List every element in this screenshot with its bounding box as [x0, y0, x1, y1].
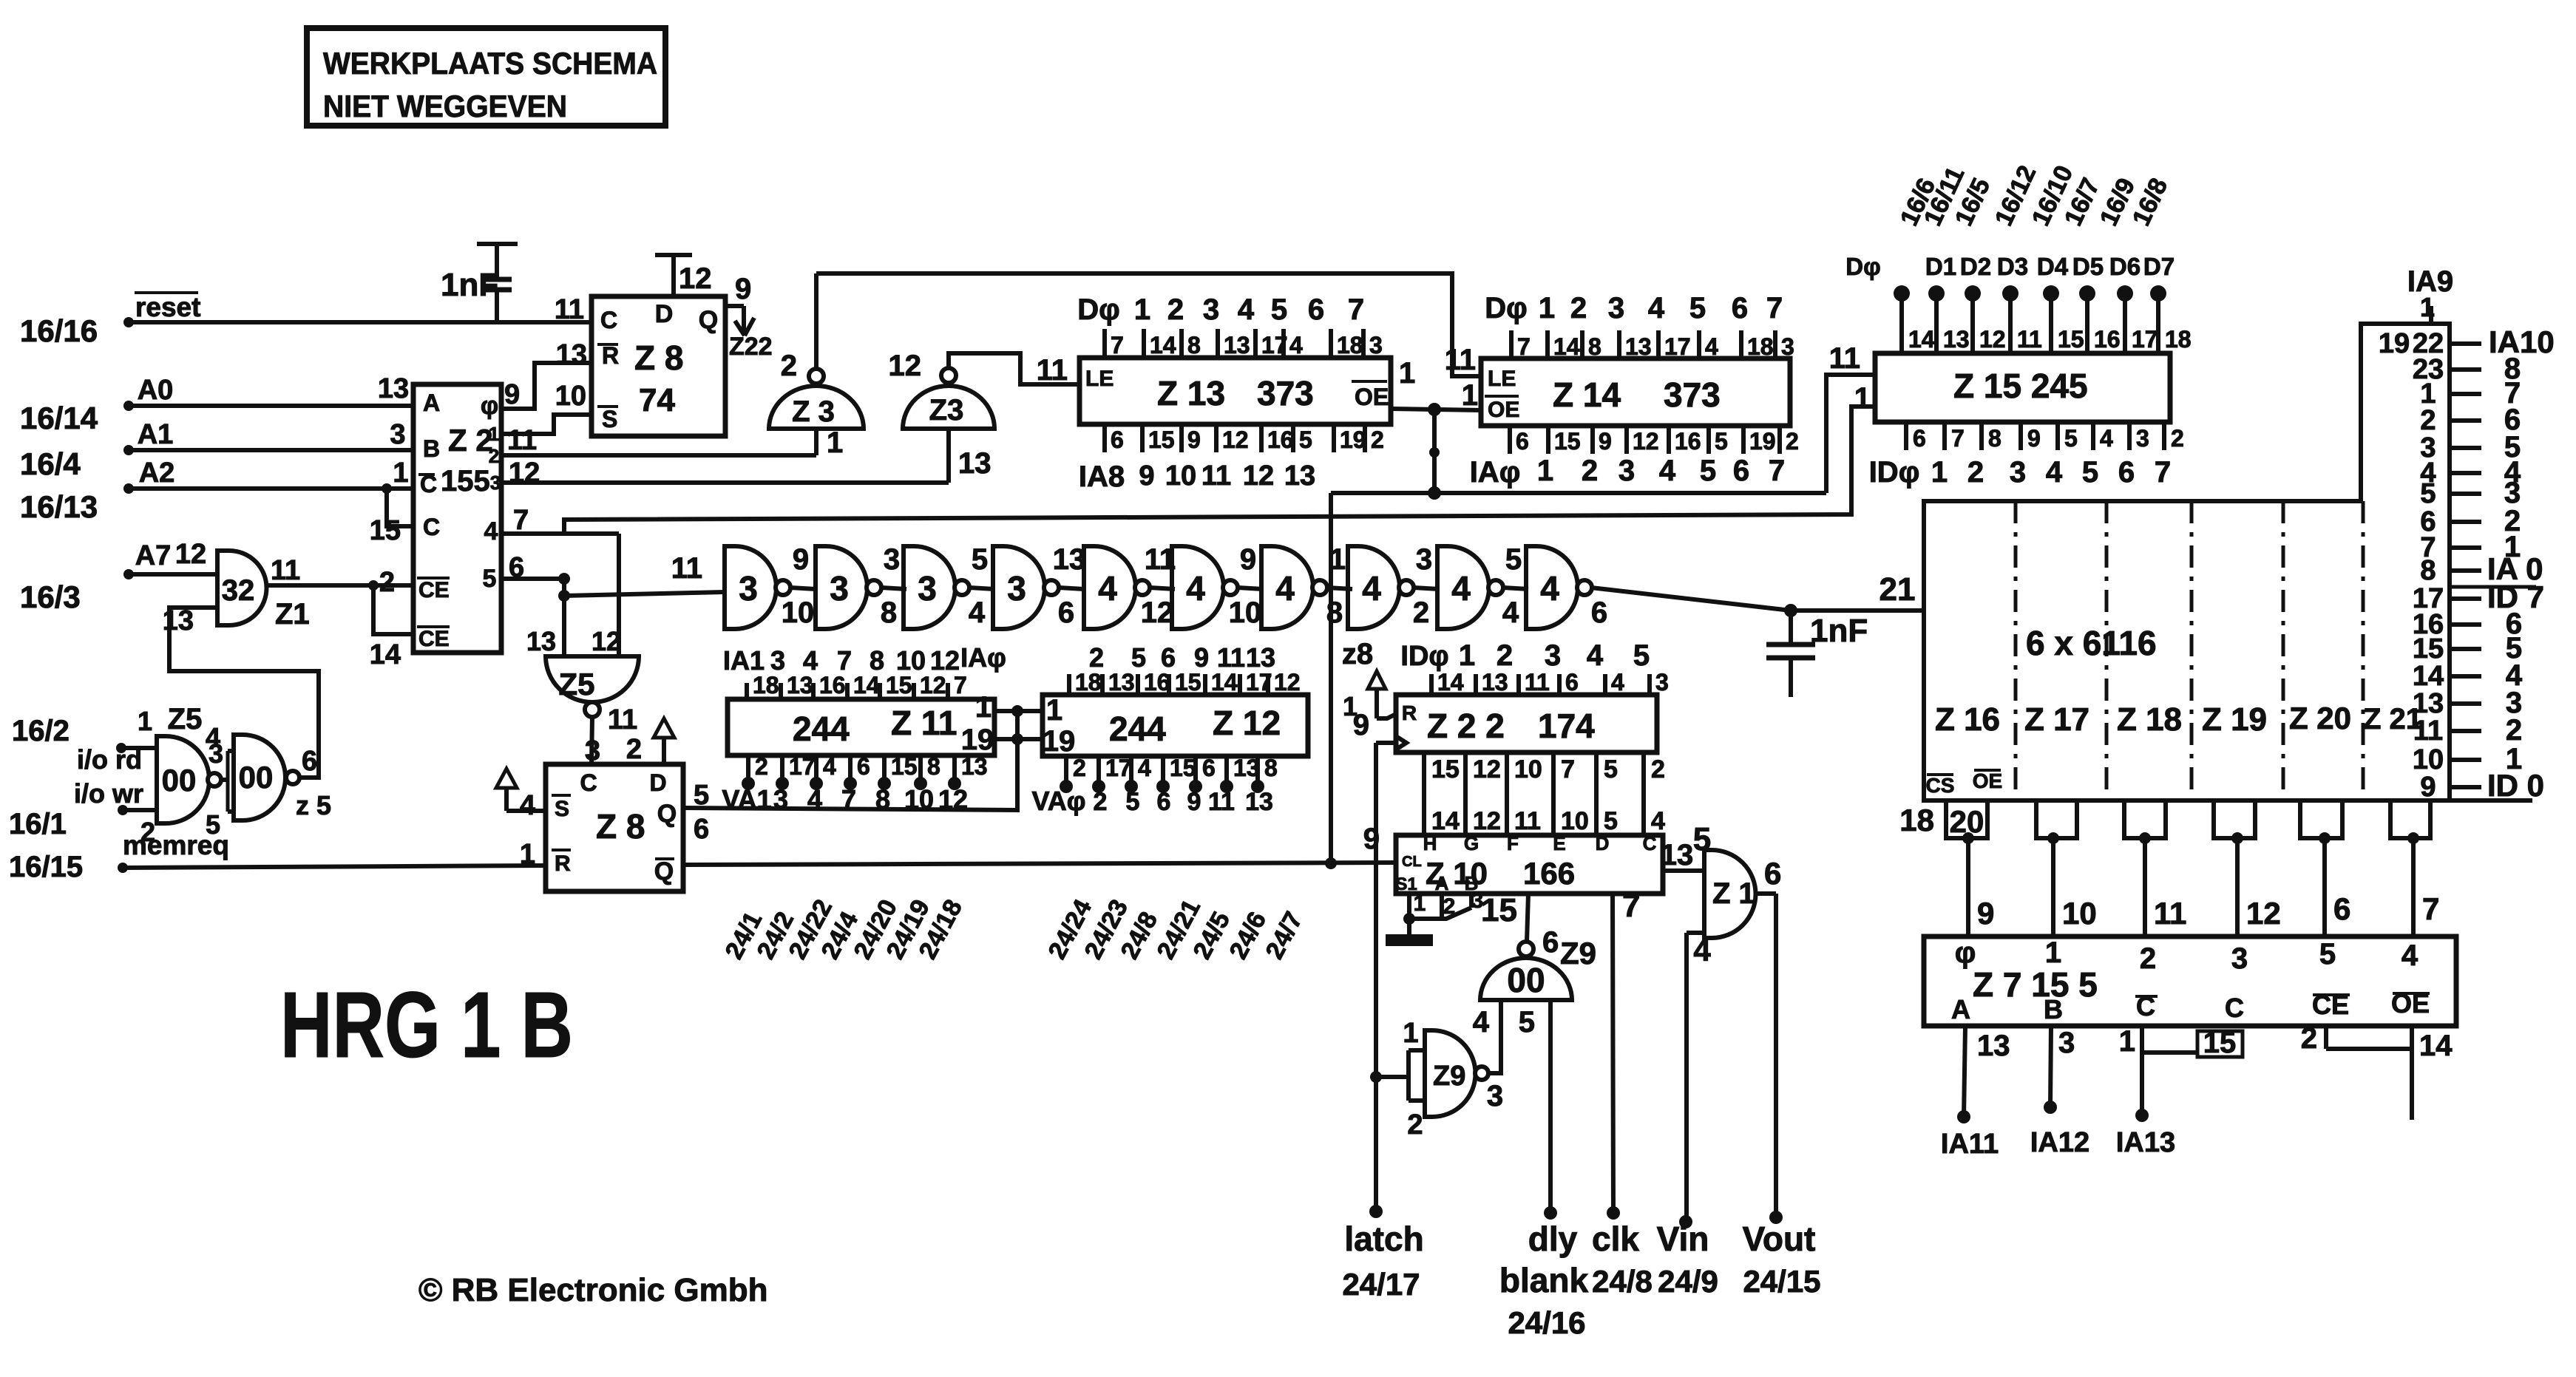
svg-text:5: 5	[1271, 293, 1287, 326]
svg-text:7: 7	[1622, 888, 1640, 924]
svg-text:10: 10	[2062, 896, 2097, 931]
svg-text:A7: A7	[135, 540, 172, 571]
svg-text:11: 11	[2154, 896, 2186, 931]
svg-text:7: 7	[841, 784, 856, 815]
svg-text:5: 5	[1519, 1006, 1535, 1038]
svg-text:4: 4	[1238, 293, 1255, 326]
svg-text:Z5: Z5	[168, 703, 203, 735]
svg-text:11: 11	[1201, 460, 1231, 492]
svg-text:4: 4	[1451, 569, 1471, 608]
svg-text:9: 9	[1194, 642, 1209, 673]
svg-text:2: 2	[2420, 405, 2436, 436]
inverter gate chain #4 (Z3)	[993, 546, 1059, 629]
net i/o rd input 16/2	[12, 706, 157, 775]
svg-text:5: 5	[1126, 788, 1140, 816]
svg-text:Z5: Z5	[558, 667, 594, 701]
svg-text:11: 11	[2413, 715, 2443, 747]
wire Z3 gate1 output to feedback line	[814, 273, 818, 369]
svg-text:4: 4	[1693, 933, 1711, 968]
net reset input 16/16	[20, 292, 592, 348]
svg-text:2: 2	[1413, 596, 1429, 629]
svg-text:B: B	[2044, 994, 2063, 1024]
Z13 bottom pins IA8-IA13	[1079, 424, 1384, 493]
svg-text:4: 4	[484, 517, 498, 545]
svg-text:18: 18	[2165, 326, 2192, 353]
svg-text:8: 8	[1264, 755, 1278, 781]
Z14 top data pins D0-D7	[1485, 292, 1794, 360]
wire Z10 pin7 to clk 24/8	[1607, 888, 1640, 1220]
svg-text:6: 6	[1516, 428, 1529, 455]
Z7 pin B 3 to IA12	[2030, 1026, 2089, 1158]
svg-text:14: 14	[1211, 669, 1238, 696]
svg-text:IDφ: IDφ	[1869, 456, 1920, 489]
svg-text:15: 15	[2203, 1027, 2237, 1059]
svg-text:Z 1: Z 1	[1712, 877, 1755, 910]
svg-text:373: 373	[1664, 375, 1721, 414]
svg-text:13: 13	[961, 753, 988, 780]
svg-text:Z 2: Z 2	[448, 423, 493, 458]
svg-text:4: 4	[1611, 669, 1624, 696]
svg-text:2: 2	[2171, 425, 2184, 452]
svg-text:5: 5	[1505, 543, 1522, 576]
svg-text:1: 1	[975, 691, 992, 724]
svg-text:5: 5	[2319, 938, 2336, 970]
ic Z10 74166 shift register	[1363, 823, 1663, 894]
svg-text:1: 1	[1046, 694, 1062, 727]
wire Z2 pin9 to Z8 R pin13	[501, 363, 592, 409]
svg-text:5: 5	[1299, 426, 1312, 453]
ic Z11 74244 buffer	[728, 691, 994, 756]
svg-text:6: 6	[1202, 755, 1216, 781]
or-gate Z1 7432 pins 12,13 output 11	[163, 551, 310, 636]
svg-text:OE: OE	[1488, 398, 1519, 422]
svg-text:OE: OE	[1973, 769, 2002, 792]
svg-text:12: 12	[938, 784, 968, 815]
svg-text:3: 3	[2010, 456, 2026, 489]
wire feedback top line to Z14 LE pin11	[816, 273, 1481, 376]
svg-text:clk: clk	[1592, 1220, 1639, 1258]
svg-text:Dφ: Dφ	[1485, 292, 1528, 324]
svg-text:8: 8	[1187, 332, 1201, 358]
svg-text:4: 4	[206, 722, 220, 752]
ic Z13 74373 latch	[1037, 354, 1416, 424]
Z15 bottom pins ID0-ID7	[1869, 422, 2184, 489]
svg-text:15: 15	[1481, 892, 1517, 928]
svg-text:00: 00	[239, 760, 274, 795]
svg-text:R: R	[1402, 701, 1417, 724]
ic Z7 74155 decoder	[1924, 936, 2456, 1026]
ic Z22 74174 hex flip-flop	[1396, 695, 1657, 752]
svg-text:1: 1	[1414, 891, 1426, 916]
svg-text:i/o wr: i/o wr	[74, 778, 143, 809]
Z15 top pins D0-D7 with terminals	[1845, 253, 2191, 353]
Z11 bottom pins VA1,3,4,7,8,10,12	[722, 753, 987, 815]
svg-text:4: 4	[823, 753, 836, 780]
svg-text:16/1: 16/1	[9, 808, 67, 840]
svg-text:10: 10	[555, 381, 586, 412]
svg-text:13: 13	[1245, 788, 1273, 816]
svg-text:10: 10	[896, 645, 926, 676]
svg-text:11: 11	[1525, 669, 1550, 696]
svg-text:13: 13	[1661, 839, 1694, 871]
wire Z9b output 3 to Z9a input 4	[1487, 1000, 1503, 1112]
svg-text:16: 16	[1144, 669, 1170, 696]
Z12 bottom pins VA0,2,5,6,9,11,13	[1031, 755, 1277, 816]
wire ram chip select pair to Z7 output 11	[2124, 800, 2186, 936]
wire Z1 output pin11 to Z2 CE pin2	[266, 580, 413, 634]
svg-text:Dφ: Dφ	[1077, 293, 1120, 326]
svg-text:R: R	[555, 851, 571, 876]
svg-text:1: 1	[489, 423, 499, 445]
logic-high arrow on Z8b S pin4	[496, 769, 546, 811]
svg-text:© RB Electronic Gmbh: © RB Electronic Gmbh	[418, 1272, 767, 1308]
svg-text:12: 12	[930, 645, 960, 676]
svg-text:4: 4	[1362, 569, 1381, 608]
svg-text:LE: LE	[1085, 367, 1114, 391]
svg-text:1: 1	[1462, 379, 1478, 412]
Z10 pins S1,A,B to ground	[1403, 888, 1483, 934]
svg-text:7: 7	[1111, 332, 1124, 358]
svg-text:14: 14	[853, 672, 880, 698]
port Vout 24/15	[1743, 1220, 1821, 1299]
ic Z15 74245 transceiver	[1829, 342, 2170, 422]
svg-text:15: 15	[1170, 755, 1196, 781]
svg-text:15: 15	[1554, 428, 1581, 455]
wire Z9a input5 to dly blank	[1544, 1000, 1557, 1220]
svg-text:3: 3	[739, 569, 758, 608]
svg-text:24/8: 24/8	[1592, 1264, 1653, 1299]
svg-text:Vout: Vout	[1743, 1220, 1816, 1258]
svg-text:24/16: 24/16	[1508, 1305, 1585, 1340]
svg-text:4: 4	[1275, 569, 1295, 608]
svg-text:12: 12	[889, 350, 922, 382]
svg-text:VA1: VA1	[722, 784, 771, 815]
svg-text:12: 12	[2246, 896, 2281, 931]
svg-text:11: 11	[1208, 788, 1235, 816]
nand Z5 gate A (i/o rd, i/o wr)	[157, 703, 223, 823]
connector labels 24/x group A (below Z11)	[720, 895, 969, 964]
svg-text:R: R	[602, 342, 619, 369]
svg-text:24/9: 24/9	[1658, 1264, 1718, 1299]
ground symbol	[1386, 934, 1433, 946]
svg-text:D6: D6	[2109, 253, 2141, 280]
svg-text:1: 1	[1931, 456, 1948, 489]
nand Z3 gate2 (output 12 up, input 13 down)	[889, 350, 995, 429]
logic-high arrow on Z8b D pin2	[626, 718, 674, 765]
svg-text:3: 3	[2058, 1027, 2075, 1059]
svg-text:CS: CS	[1926, 774, 1955, 797]
svg-text:5: 5	[206, 809, 220, 840]
svg-text:D: D	[655, 300, 674, 328]
svg-text:5: 5	[1131, 642, 1146, 673]
svg-text:E: E	[1553, 832, 1565, 854]
wire ram chip select pair to Z7 output 10	[2036, 800, 2097, 936]
wire Z2 pin10 to Z8 S pin10	[501, 415, 592, 434]
svg-text:A1: A1	[138, 419, 174, 450]
inverter gate chain #8 (Z4)	[1348, 546, 1414, 629]
svg-text:3: 3	[1416, 543, 1432, 576]
svg-text:11: 11	[608, 704, 637, 735]
svg-text:IA8: IA8	[1079, 460, 1125, 493]
svg-text:15: 15	[891, 753, 918, 780]
svg-text:7: 7	[1561, 755, 1575, 783]
svg-text:2: 2	[781, 350, 797, 382]
ic Z8 7474 flip-flop top half	[555, 255, 725, 436]
svg-text:11: 11	[555, 294, 584, 325]
svg-text:13: 13	[1482, 669, 1508, 696]
svg-text:13: 13	[378, 373, 409, 404]
svg-text:16/2: 16/2	[12, 715, 70, 747]
svg-text:CE: CE	[418, 578, 450, 602]
svg-text:1: 1	[1403, 1018, 1418, 1049]
wire junction line to Z15 pin11 and down to Z10	[1331, 375, 1875, 863]
svg-text:5: 5	[483, 565, 497, 593]
net A0 input 16/14	[20, 373, 413, 435]
svg-text:Q: Q	[654, 857, 674, 885]
svg-text:8: 8	[1588, 333, 1601, 360]
svg-text:2: 2	[755, 753, 768, 780]
svg-text:reset: reset	[135, 292, 200, 322]
svg-text:13: 13	[1053, 543, 1086, 576]
svg-text:13: 13	[1943, 326, 1970, 353]
svg-text:6: 6	[1732, 292, 1748, 324]
svg-text:15: 15	[1175, 669, 1201, 696]
svg-text:15: 15	[1148, 426, 1175, 453]
svg-text:11: 11	[2017, 326, 2042, 353]
svg-text:6: 6	[1913, 425, 1926, 452]
svg-text:1nF: 1nF	[1810, 613, 1868, 649]
svg-text:5: 5	[2082, 456, 2098, 489]
ic Z8 7474 flip-flop bottom half	[520, 764, 709, 891]
svg-text:9: 9	[1187, 426, 1201, 453]
svg-text:Z 14: Z 14	[1553, 375, 1621, 414]
svg-text:21: 21	[1880, 571, 1916, 608]
svg-text:Dφ: Dφ	[1845, 253, 1880, 280]
net IA9 into ram pin 1	[2407, 265, 2453, 324]
svg-text:12: 12	[1633, 428, 1659, 455]
svg-text:z8: z8	[1342, 638, 1373, 670]
net A1 input 16/4	[20, 419, 413, 481]
wire Z3 gate2 output to Z13 LE pin11	[949, 353, 1079, 384]
svg-text:z 5: z 5	[296, 790, 331, 820]
svg-text:17: 17	[1105, 755, 1132, 781]
svg-text:1: 1	[1134, 293, 1150, 326]
svg-text:16/3: 16/3	[20, 579, 81, 614]
and Z1 gate B (video out)	[1661, 839, 1756, 938]
svg-text:2: 2	[1073, 755, 1086, 781]
svg-text:3: 3	[1007, 569, 1026, 608]
svg-text:15: 15	[2413, 633, 2444, 664]
wire Vin up to Z1 gate pin4	[1679, 933, 1711, 1228]
svg-text:7: 7	[1769, 455, 1785, 487]
svg-text:4: 4	[1186, 569, 1205, 608]
ic Z12 74244 buffer	[1043, 694, 1308, 758]
svg-text:6: 6	[1157, 788, 1171, 816]
wire latch 24/17 up to Z22 clock	[1369, 743, 1383, 1218]
svg-text:9: 9	[2420, 772, 2436, 803]
svg-text:3: 3	[918, 569, 937, 608]
svg-text:10: 10	[1561, 807, 1589, 835]
svg-text:6: 6	[1111, 426, 1124, 453]
wire ram chip select pair to Z7 output 7	[2390, 800, 2439, 936]
svg-text:2: 2	[1167, 293, 1184, 326]
capacitor C1 1nF on reset line	[441, 244, 518, 322]
svg-text:12: 12	[1243, 460, 1274, 492]
Z22 clock pin9 from latch line	[1353, 709, 1396, 743]
svg-text:LE: LE	[1488, 367, 1516, 391]
svg-text:2: 2	[1967, 456, 1984, 489]
svg-text:14: 14	[2419, 1030, 2453, 1062]
svg-text:18: 18	[1075, 669, 1102, 696]
svg-text:1: 1	[1537, 455, 1553, 487]
svg-text:S: S	[555, 797, 569, 821]
svg-text:6: 6	[1565, 669, 1579, 696]
svg-text:4: 4	[520, 790, 535, 821]
svg-text:4: 4	[803, 645, 818, 676]
ram block 6x6116 Z16-Z21 outline	[1924, 324, 2532, 800]
svg-text:5: 5	[1633, 639, 1650, 672]
svg-text:4: 4	[2100, 425, 2113, 452]
svg-text:IA11: IA11	[1941, 1129, 1999, 1160]
nand Z5 gate B (pins 4,5 output 6)	[206, 722, 331, 840]
svg-text:C: C	[600, 307, 617, 333]
svg-text:3: 3	[830, 569, 849, 608]
inverter gate chain #6 (Z4)	[1172, 546, 1238, 629]
gate chain connecting wires	[790, 588, 1528, 589]
svg-text:VAφ: VAφ	[1031, 786, 1085, 816]
svg-text:3: 3	[1781, 333, 1794, 360]
svg-text:Z 19: Z 19	[2202, 701, 2267, 738]
svg-text:6: 6	[2118, 456, 2135, 489]
svg-text:14: 14	[1150, 332, 1176, 358]
svg-text:12: 12	[679, 262, 712, 295]
svg-text:9: 9	[1187, 788, 1201, 816]
wire gate chain output to RAM pin 21	[1591, 571, 1924, 617]
svg-text:32: 32	[222, 574, 255, 607]
svg-text:9: 9	[1240, 543, 1256, 576]
svg-text:16: 16	[1675, 428, 1701, 455]
wire Z2 pin11 to Z3 gate1 input 1	[501, 426, 843, 459]
svg-text:6: 6	[1308, 293, 1324, 326]
svg-text:20: 20	[1950, 804, 1984, 839]
inverter gate chain #10 (Z4)	[1526, 546, 1592, 629]
wire Z1 pin13 from Z5 nand output 6	[169, 608, 319, 778]
svg-text:Z 18: Z 18	[2117, 701, 2182, 738]
svg-text:F: F	[1507, 832, 1519, 854]
Z7 pin C 1 to IA13 and tie to 15	[2116, 1025, 2243, 1158]
nand Z9 gate B (inputs 1,2 from latch)	[1370, 1018, 1488, 1140]
svg-text:4: 4	[807, 784, 822, 815]
svg-text:2: 2	[2301, 1022, 2317, 1055]
svg-text:7: 7	[2155, 456, 2171, 489]
svg-text:4: 4	[969, 596, 986, 629]
nand Z9 gate A (00) output 6 up	[1473, 926, 1596, 1038]
port Vin 24/9	[1657, 1220, 1718, 1299]
svg-text:16/4: 16/4	[20, 446, 81, 481]
svg-text:A: A	[423, 390, 440, 416]
svg-text:10: 10	[1229, 596, 1262, 629]
svg-text:H: H	[1423, 832, 1437, 854]
svg-text:3: 3	[490, 472, 501, 494]
svg-text:19: 19	[1340, 426, 1366, 453]
port clk 24/8	[1592, 1220, 1653, 1299]
svg-text:3: 3	[773, 784, 788, 815]
svg-text:13: 13	[787, 672, 813, 698]
svg-text:10: 10	[1514, 755, 1542, 783]
svg-text:WERKPLAATS SCHEMA: WERKPLAATS SCHEMA	[323, 46, 657, 81]
svg-text:74: 74	[639, 382, 675, 418]
wire Z2 pin12 to Z3 gate2 input 13	[501, 429, 992, 483]
svg-text:4: 4	[1651, 807, 1665, 835]
port latch 24/17	[1342, 1220, 1423, 1302]
svg-text:D5: D5	[2072, 253, 2104, 280]
svg-text:11: 11	[507, 425, 537, 456]
svg-text:13: 13	[1246, 642, 1275, 673]
svg-text:9: 9	[1353, 709, 1369, 741]
svg-text:13: 13	[2413, 688, 2444, 719]
svg-text:16/15: 16/15	[9, 851, 83, 883]
svg-text:1: 1	[1539, 292, 1555, 324]
svg-text:11: 11	[671, 552, 702, 585]
svg-text:13: 13	[1108, 669, 1135, 696]
svg-text:2: 2	[626, 734, 642, 765]
gate chain pin labels	[671, 543, 1607, 629]
net A2 input 16/13	[20, 458, 413, 526]
svg-text:15: 15	[1431, 755, 1460, 783]
svg-text:Z 17: Z 17	[2024, 701, 2089, 738]
svg-text:2: 2	[2140, 942, 2156, 975]
svg-text:3: 3	[2136, 425, 2149, 452]
wire ram chip select pair to Z7 output 12	[2214, 800, 2281, 936]
nand Z3 gate1 (output 2 up, input 1 down)	[769, 350, 864, 429]
svg-text:18: 18	[1899, 803, 1934, 837]
svg-text:16: 16	[2094, 326, 2121, 353]
svg-text:6: 6	[1542, 926, 1559, 959]
svg-text:24/15: 24/15	[1743, 1264, 1820, 1299]
svg-text:13: 13	[1284, 460, 1315, 492]
svg-text:5: 5	[1604, 755, 1618, 783]
svg-text:1: 1	[138, 706, 152, 736]
svg-text:3: 3	[884, 543, 900, 576]
svg-text:IA10: IA10	[2489, 324, 2555, 359]
svg-text:10: 10	[1165, 460, 1196, 492]
svg-text:7: 7	[837, 645, 852, 676]
svg-text:IA13: IA13	[2116, 1127, 2175, 1158]
wire Z8b Qbar to Z10 pin9 (memreq gate)	[683, 857, 1396, 869]
svg-text:B: B	[423, 435, 440, 462]
svg-text:4: 4	[1659, 455, 1676, 487]
svg-text:3: 3	[390, 419, 405, 450]
ic Z14 74373 latch	[1445, 344, 1790, 426]
svg-text:10: 10	[904, 784, 934, 815]
svg-text:16: 16	[819, 672, 846, 698]
svg-text:3: 3	[1619, 455, 1635, 487]
svg-text:12: 12	[592, 626, 621, 656]
svg-text:1: 1	[2045, 936, 2061, 969]
svg-text:Z 13: Z 13	[1157, 374, 1225, 412]
svg-text:Z 20: Z 20	[2289, 701, 2351, 735]
svg-text:11: 11	[1829, 342, 1860, 375]
svg-text:14: 14	[1553, 333, 1580, 360]
svg-text:19: 19	[1749, 428, 1776, 455]
svg-text:Z 8: Z 8	[596, 807, 645, 846]
svg-text:Q: Q	[699, 306, 718, 334]
svg-text:9: 9	[793, 543, 809, 576]
svg-text:13: 13	[1625, 333, 1652, 360]
svg-text:18: 18	[1337, 332, 1363, 358]
svg-text:6 x 6116: 6 x 6116	[2026, 624, 2157, 662]
svg-text:2: 2	[1094, 788, 1108, 816]
